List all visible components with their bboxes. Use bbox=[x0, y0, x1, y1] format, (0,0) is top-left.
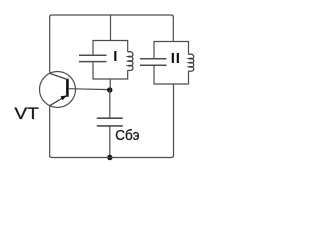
capacitor C2 plates bbox=[140, 58, 167, 60]
capacitor Сбэ bbox=[97, 118, 140, 144]
wire: Сбэ bottom lead bbox=[109, 126, 111, 157]
transistor VT bbox=[40, 72, 76, 108]
wire: Сбэ top lead bbox=[109, 90, 111, 118]
wire: top rail bbox=[50, 15, 174, 17]
inductor L2 bbox=[188, 41, 190, 55]
wire: tank II bottom lead bbox=[173, 84, 175, 157]
tank circuit I bbox=[79, 40, 133, 80]
wire: base lead bbox=[68, 88, 109, 91]
node: base junction bbox=[107, 87, 112, 92]
wire: tank I top lead bbox=[110, 15, 112, 41]
wire: emitter lead vertical bbox=[49, 106, 51, 157]
svg-text:VT: VT bbox=[14, 105, 39, 123]
wire: tank I bottom lead bbox=[109, 79, 111, 90]
inductor L1 bbox=[127, 40, 129, 52]
wire: bottom rail bbox=[50, 156, 174, 158]
wire: collector lead vertical bbox=[49, 16, 51, 74]
svg-text:I: I bbox=[113, 48, 117, 65]
wire: tank II top lead bbox=[172, 16, 174, 42]
tank circuit II bbox=[140, 41, 194, 85]
node: bottom rail junction bbox=[107, 155, 112, 160]
svg-text:II: II bbox=[171, 50, 181, 67]
capacitor C1 plates bbox=[79, 54, 107, 56]
svg-text:Сбэ: Сбэ bbox=[115, 127, 139, 144]
